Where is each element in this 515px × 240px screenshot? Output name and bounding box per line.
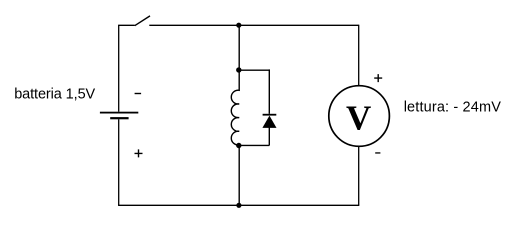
wire bottom horizontal	[118, 204, 359, 206]
node bottom of parallel group	[236, 143, 241, 148]
voltmeter plus label	[374, 74, 382, 82]
battery plus label	[135, 149, 143, 157]
node junction bottom	[236, 203, 241, 208]
switch S1 stub	[118, 24, 135, 26]
wire battery to bottom	[118, 119, 120, 205]
svg-text:V: V	[346, 99, 371, 138]
node junction top	[236, 23, 241, 28]
voltmeter minus label	[375, 152, 380, 153]
node top of parallel group	[236, 67, 241, 72]
wire connector top node to diode branch	[239, 69, 269, 71]
battery minus label	[135, 93, 142, 94]
voltmeter U1 circle	[329, 86, 390, 147]
inductor L1	[231, 70, 239, 145]
wire left vertical (switch to battery)	[118, 25, 120, 111]
diode D1 triangle (pointing up)	[262, 116, 276, 128]
wire right vertical upper	[358, 25, 360, 86]
diode D1 cathode bar	[263, 114, 277, 116]
wire diode branch vertical lower	[268, 127, 270, 146]
wire diode branch vertical upper	[268, 69, 270, 113]
wire middle vertical upper	[238, 25, 240, 70]
battery B1 short plate (bottom)	[110, 117, 128, 119]
wire connector diode branch to bottom node	[239, 144, 269, 146]
switch S1 blade (open)	[135, 16, 150, 26]
wire right vertical lower	[358, 146, 360, 205]
wire middle vertical lower	[238, 146, 240, 206]
svg-text:lettura: - 24mV: lettura: - 24mV	[404, 100, 502, 116]
wire top horizontal	[149, 24, 358, 26]
svg-text:batteria 1,5V: batteria 1,5V	[14, 86, 95, 102]
battery B1 long plate (top)	[100, 112, 138, 114]
